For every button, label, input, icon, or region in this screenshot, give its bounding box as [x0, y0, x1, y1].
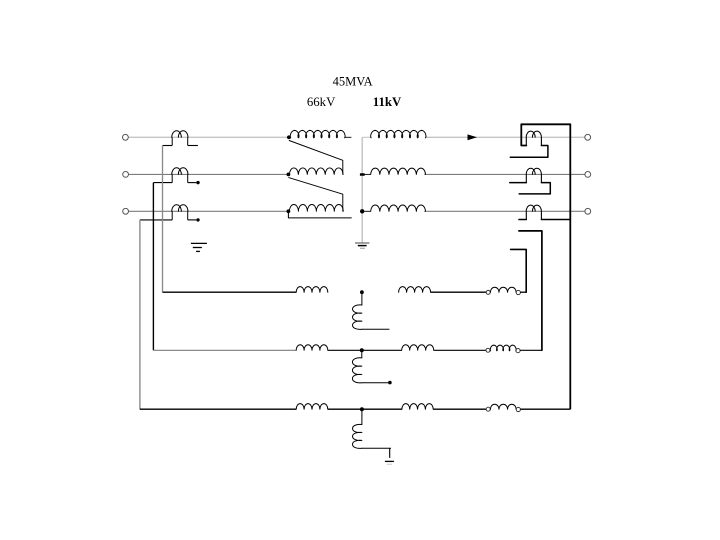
svg-text:66kV: 66kV	[307, 95, 336, 109]
svg-text:45MVA: 45MVA	[333, 75, 373, 89]
svg-text:11kV: 11kV	[373, 95, 402, 109]
